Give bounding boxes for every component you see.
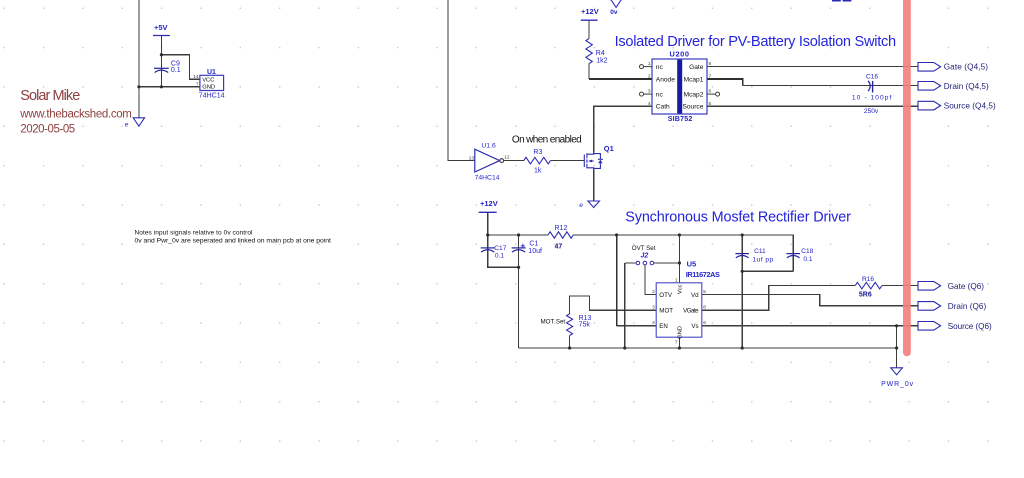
svg-text:6: 6 — [703, 320, 706, 326]
svg-text:GND: GND — [678, 326, 684, 339]
svg-text:0.1: 0.1 — [495, 253, 504, 260]
svg-text:U1.6: U1.6 — [481, 143, 496, 150]
svg-text:Anode: Anode — [656, 76, 675, 83]
svg-text:Source (Q4,5): Source (Q4,5) — [944, 102, 996, 111]
svg-text:EN: EN — [659, 323, 668, 330]
svg-text:Source (Q6): Source (Q6) — [948, 322, 992, 331]
svg-text:10uf: 10uf — [528, 248, 542, 255]
svg-text:SIB752: SIB752 — [668, 115, 693, 123]
svg-text:MOT Set: MOT Set — [541, 319, 566, 326]
svg-text:R3: R3 — [533, 149, 542, 156]
svg-text:Notes input signals relative t: Notes input signals relative to 0v contr… — [135, 230, 254, 237]
svg-text:1uf pp: 1uf pp — [752, 257, 773, 264]
svg-text:5: 5 — [709, 101, 712, 107]
svg-text:GND: GND — [202, 85, 215, 91]
svg-text:Q1: Q1 — [604, 144, 614, 153]
svg-text:C1: C1 — [529, 241, 538, 248]
svg-text:J2: J2 — [641, 253, 649, 260]
svg-text:Synchronous Mosfet Rectifier D: Synchronous Mosfet Rectifier Driver — [625, 209, 851, 225]
svg-text:R16: R16 — [862, 276, 874, 283]
svg-text:10 - 100pf: 10 - 100pf — [852, 95, 892, 102]
svg-text:6: 6 — [709, 89, 712, 95]
svg-text:Gate (Q4,5): Gate (Q4,5) — [944, 63, 989, 72]
svg-text:Vs: Vs — [691, 323, 698, 330]
svg-text:Gate: Gate — [689, 64, 704, 71]
svg-text:C16: C16 — [866, 73, 878, 80]
svg-text:U200: U200 — [670, 50, 690, 59]
svg-text:5R6: 5R6 — [859, 291, 872, 298]
svg-text:12: 12 — [504, 155, 510, 161]
svg-text:MOT: MOT — [659, 308, 673, 315]
svg-text:1k: 1k — [534, 168, 542, 175]
svg-text:7: 7 — [196, 82, 199, 88]
svg-text:8: 8 — [709, 61, 712, 67]
svg-text:7: 7 — [709, 74, 712, 80]
svg-text:+: + — [520, 241, 525, 251]
svg-text:U5: U5 — [687, 259, 697, 268]
svg-text:R12: R12 — [555, 225, 568, 232]
svg-text:47: 47 — [555, 244, 563, 251]
svg-text:e: e — [125, 121, 129, 128]
svg-text:4: 4 — [652, 320, 655, 326]
svg-text:OVT Set: OVT Set — [632, 245, 656, 252]
svg-text:1: 1 — [648, 61, 651, 67]
svg-text:On when enabled: On when enabled — [512, 134, 582, 145]
svg-text:74HC14: 74HC14 — [475, 175, 500, 182]
svg-text:2: 2 — [648, 74, 651, 80]
svg-text:13: 13 — [469, 155, 475, 161]
svg-text:IR11672AS: IR11672AS — [686, 270, 720, 279]
svg-text:C11: C11 — [754, 248, 766, 255]
svg-text:3: 3 — [652, 304, 655, 310]
svg-text:4: 4 — [648, 101, 651, 107]
svg-text:OTV: OTV — [659, 292, 673, 299]
svg-text:0.1: 0.1 — [171, 67, 181, 74]
svg-text:250v: 250v — [864, 108, 879, 115]
svg-text:2020-05-05: 2020-05-05 — [20, 124, 75, 136]
svg-text:75k: 75k — [579, 322, 591, 329]
svg-text:Drain (Q4,5): Drain (Q4,5) — [944, 82, 989, 91]
svg-text:Mcap1: Mcap1 — [684, 76, 704, 83]
svg-text:5: 5 — [703, 289, 706, 295]
svg-text:C18: C18 — [801, 248, 813, 255]
svg-text:e: e — [579, 202, 583, 209]
svg-text:0v and Pwr_0v are seperated an: 0v and Pwr_0v are seperated and linked o… — [135, 238, 332, 245]
svg-text:www.thebackshed.com: www.thebackshed.com — [19, 109, 132, 121]
svg-text:Mcap2: Mcap2 — [684, 92, 704, 99]
svg-text:2: 2 — [652, 289, 655, 295]
svg-text:Isolated Driver for PV-Battery: Isolated Driver for PV-Battery Isolation… — [615, 34, 897, 50]
svg-text:+12V: +12V — [480, 199, 498, 208]
svg-text:VGate: VGate — [683, 308, 699, 315]
svg-text:7: 7 — [675, 340, 678, 346]
svg-text:+12V: +12V — [581, 7, 599, 16]
svg-text:nc: nc — [656, 64, 664, 71]
svg-text:R4: R4 — [596, 50, 605, 57]
svg-text:nc: nc — [656, 92, 664, 99]
svg-text:+5V: +5V — [154, 23, 168, 32]
svg-text:74HC14: 74HC14 — [199, 93, 225, 100]
svg-text:Solar Mike: Solar Mike — [20, 88, 80, 104]
svg-text:C17: C17 — [494, 245, 506, 252]
svg-text:0.1: 0.1 — [803, 256, 812, 263]
svg-text:VCC: VCC — [202, 78, 214, 84]
svg-text:1k2: 1k2 — [596, 57, 607, 64]
svg-text:1: 1 — [675, 277, 678, 283]
svg-text:Gate (Q6): Gate (Q6) — [948, 282, 985, 291]
svg-text:U1: U1 — [207, 69, 216, 76]
svg-text:14: 14 — [193, 74, 199, 80]
svg-text:Cath: Cath — [656, 104, 670, 111]
svg-text:PWR_0v: PWR_0v — [881, 381, 914, 388]
svg-text:Vcc: Vcc — [678, 284, 684, 294]
svg-text:8: 8 — [703, 304, 706, 310]
svg-text:3: 3 — [648, 89, 651, 95]
svg-text:Source: Source — [682, 104, 703, 111]
svg-text:Drain (Q6): Drain (Q6) — [948, 302, 987, 311]
svg-text:0v: 0v — [610, 9, 618, 16]
svg-text:Vd: Vd — [691, 292, 699, 299]
